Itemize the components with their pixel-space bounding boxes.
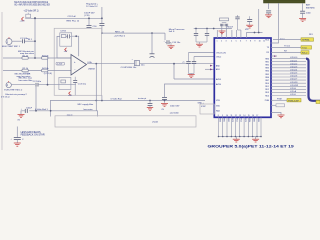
ground (red) C5C6 — [196, 44, 203, 47]
capacitor C16 — [87, 18, 92, 27]
wire +5V feed above IC — [194, 28, 232, 30]
junction mic1 cap — [34, 40, 36, 42]
svg-text:C2 10n: C2 10n — [23, 73, 31, 75]
wire mic2 cap down to 0V rail — [35, 87, 37, 111]
wire antenna down — [268, 3, 270, 9]
svg-text:MCLR: MCLR — [227, 27, 233, 29]
svg-text:868 MHz: 868 MHz — [306, 7, 315, 9]
power flag (red) feedback — [64, 48, 68, 53]
svg-text:12: 12 — [235, 115, 237, 117]
wire input 2 — [3, 70, 71, 72]
wire mic1 out — [12, 40, 22, 42]
capacitor C1 — [22, 39, 24, 43]
svg-text:ELECTRET MIC 1: ELECTRET MIC 1 — [2, 46, 21, 48]
junction feedback node — [75, 35, 77, 37]
svg-text:MIC supply filter: MIC supply filter — [78, 103, 94, 106]
ground (red) under C14 — [168, 46, 175, 49]
svg-text:RB0: RB0 — [265, 58, 269, 60]
svg-text:RD2: RD2 — [265, 89, 269, 91]
wire op-amp output — [87, 63, 135, 65]
svg-text:RD5: RD5 — [252, 119, 254, 123]
svg-text:1.25V: 1.25V — [57, 64, 63, 66]
sheet left border — [1, 12, 3, 150]
svg-text:FEEDBACK ON STAR: FEEDBACK ON STAR — [21, 133, 45, 136]
wire +12V top rail — [31, 17, 102, 19]
small component right — [276, 104, 285, 107]
svg-text:RB6: RB6 — [265, 77, 269, 79]
svg-text:RD6: RD6 — [257, 119, 259, 123]
sheet background — [0, 0, 320, 152]
resistor R3b — [42, 57, 48, 60]
0V rail 1 wire — [29, 111, 97, 117]
svg-text:LCD-K: LCD-K — [290, 94, 297, 96]
capacitor C23 — [247, 16, 252, 25]
junction +5V b — [206, 28, 208, 30]
ground (red) under C23 — [246, 25, 253, 28]
wire mic gnd link — [50, 101, 52, 117]
junction 0V b — [149, 100, 151, 102]
svg-text:LCD-RW: LCD-RW — [290, 85, 298, 87]
svg-text:OSC1/CLKI: OSC1/CLKI — [216, 52, 226, 54]
svg-text:ANT: ANT — [306, 3, 311, 6]
wire to ground A — [235, 137, 237, 140]
wire audio branch vertical — [173, 64, 175, 79]
svg-text:8: 8 — [218, 115, 219, 117]
svg-text:MIC + AMPLIFIER IN GROUNDED (E: MIC + AMPLIFIER IN GROUNDED (EMI) SHIELD… — [14, 3, 50, 7]
wire pin RA2 stub — [205, 68, 214, 70]
svg-text:0 V ref pt: 0 V ref pt — [1, 96, 10, 99]
ground (red) under C22 — [299, 19, 306, 22]
svg-text:low noise filter: low noise filter — [19, 79, 33, 82]
net arrow pin RA1 — [210, 65, 213, 67]
fuse F1 — [25, 13, 30, 18]
capacitor C14 — [164, 40, 172, 44]
svg-text:(1,2,3,4): (1,2,3,4) — [44, 73, 52, 75]
svg-text:TX 0ut: TX 0ut — [284, 45, 290, 48]
svg-text:RD1: RD1 — [265, 86, 269, 88]
svg-text:C19 1uF: C19 1uF — [68, 16, 77, 18]
data bus net lines — [271, 59, 306, 96]
0V long rail — [50, 100, 205, 102]
svg-text:+6V: +6V — [64, 51, 68, 53]
wire pin stub small — [271, 55, 277, 57]
svg-text:13: 13 — [239, 115, 241, 117]
svg-text:AVDD: AVDD — [216, 78, 222, 81]
ground (red) under C18 — [14, 143, 21, 146]
net label yellow edge — [316, 100, 320, 103]
svg-text:RC3: RC3 — [244, 119, 246, 123]
wire drop to C12 — [151, 33, 153, 53]
svg-text:OSC2: OSC2 — [216, 56, 221, 58]
svg-text:LCD-D7: LCD-D7 — [290, 79, 298, 81]
wire reset drop — [258, 9, 260, 33]
svg-text:RB4: RB4 — [265, 71, 269, 73]
junction 0V a — [95, 100, 97, 102]
crystal load caps — [220, 23, 228, 26]
wire mic2 to bias cluster — [38, 84, 76, 86]
capacitor C19 — [99, 7, 104, 33]
svg-text:RC0: RC0 — [265, 39, 269, 41]
wire to IC pin AREF — [165, 84, 215, 97]
wire net label 3 — [271, 51, 301, 53]
electret mic MIC1 — [6, 37, 12, 44]
svg-text:ELECTRET MIC 2: ELECTRET MIC 2 — [4, 90, 23, 92]
wire input 1 — [3, 57, 71, 59]
bus line (thick) — [306, 59, 320, 101]
junction rail2 a — [151, 32, 153, 34]
svg-text:LCD-D1: LCD-D1 — [290, 60, 298, 62]
svg-text:RD0: RD0 — [265, 83, 269, 85]
svg-text:RB7: RB7 — [265, 80, 269, 82]
svg-text:RB3: RB3 — [265, 68, 269, 70]
svg-text:and 100n: and 100n — [170, 112, 180, 114]
wire coupling to IC — [140, 63, 215, 65]
svg-text:5x4 S: 5x4 S — [169, 31, 175, 33]
wire dec gnd stub — [190, 73, 192, 76]
svg-text:RE2: RE2 — [227, 119, 229, 123]
svg-text:0 Volts Rail: 0 Volts Rail — [111, 97, 122, 100]
capacitor C22 — [300, 3, 305, 18]
wire reset feed — [246, 32, 262, 34]
capacitor C11 — [162, 97, 167, 103]
svg-text:LCD-D4: LCD-D4 — [290, 70, 298, 72]
IC left pin names — [216, 52, 226, 112]
svg-text:PGM-ICSP: PGM-ICSP — [288, 100, 299, 102]
wire mic2 out — [11, 84, 35, 86]
svg-text:RE1: RE1 — [223, 119, 225, 123]
svg-text:12 Volts DC: 12 Volts DC — [86, 5, 98, 8]
wire pin stub b — [271, 104, 276, 106]
svg-text:LCD-D3: LCD-D3 — [290, 66, 298, 68]
svg-text:PGM: PGM — [265, 100, 270, 102]
power flag (red) bias — [68, 92, 72, 98]
wire dec top — [189, 52, 215, 54]
shield box bottom — [55, 116, 196, 127]
junction +5V c — [213, 28, 215, 30]
wire C14 to ground — [170, 42, 172, 45]
svg-text:+12 Volts (VR 1): +12 Volts (VR 1) — [24, 9, 39, 12]
capacitor C17 — [148, 101, 153, 108]
svg-text:C14 10u: C14 10u — [172, 42, 181, 44]
crystal X1 — [220, 18, 229, 21]
wire feedback left to inverting input — [57, 36, 71, 58]
wire feedback to output — [72, 36, 79, 56]
wire mic2 bias vertical — [47, 58, 49, 85]
svg-text:RD4: RD4 — [265, 95, 269, 97]
svg-text:LCD-RS: LCD-RS — [290, 82, 298, 84]
wire dec common — [189, 73, 195, 75]
svg-text:RB5: RB5 — [265, 74, 269, 76]
svg-text:1: 1 — [217, 41, 218, 43]
svg-text:C2 100n: C2 100n — [33, 81, 42, 83]
junction audio branch — [173, 63, 175, 65]
capacitor C8 — [192, 57, 196, 74]
wire bias gnd drop — [95, 64, 97, 111]
IC top pin stubs — [217, 24, 246, 38]
svg-text:LCD-D6: LCD-D6 — [290, 76, 298, 78]
svg-text:LM358: LM358 — [88, 68, 95, 70]
svg-text:100n 63V: 100n 63V — [170, 106, 180, 108]
svg-text:14: 14 — [243, 115, 245, 117]
svg-text:10: 10 — [259, 41, 261, 43]
capacitor C5 — [194, 29, 198, 43]
ground (red) under C21 — [265, 15, 272, 18]
capacitor C15 (series) — [21, 107, 33, 114]
bottom common wire — [219, 136, 262, 138]
ground (red) right of IC — [278, 115, 285, 118]
svg-text:AN0: AN0 — [216, 64, 220, 67]
svg-text:5: 5 — [236, 41, 237, 43]
junction +5V a — [195, 28, 197, 30]
svg-text:+12V: +12V — [20, 21, 26, 23]
svg-text:2: 2 — [221, 41, 222, 43]
capacitor C7 — [186, 53, 190, 74]
net arrow pin RA2 — [210, 68, 213, 70]
svg-text:9: 9 — [254, 41, 255, 43]
svg-text:SERIAL: SERIAL — [302, 39, 311, 42]
junction bias top — [47, 57, 49, 59]
op-amp U1A — [71, 55, 87, 76]
capacitor C2 — [36, 83, 38, 87]
IC bottom pin wires — [219, 117, 262, 136]
net arrow stub — [274, 55, 276, 57]
mic bias network box 2 — [59, 77, 71, 89]
svg-text:to star pt: to star pt — [138, 97, 147, 100]
feedback network box 1 — [60, 33, 72, 46]
capacitor C10 coupling — [132, 59, 140, 66]
svg-text:RB2: RB2 — [265, 65, 269, 67]
svg-text:RB1: RB1 — [265, 62, 269, 64]
svg-text:GROUPER 5.0(a)PET 11-12-14 ET: GROUPER 5.0(a)PET 11-12-14 ET 19 — [208, 143, 295, 148]
shield enclosure box (amp) — [54, 28, 101, 95]
data bus net labels — [290, 57, 298, 96]
svg-text:REG Plus 12: REG Plus 12 — [67, 20, 80, 22]
IC pin numbers top row — [217, 41, 266, 43]
power flag +12V (red) — [20, 17, 26, 23]
svg-text:RE0: RE0 — [218, 119, 220, 123]
wire gnd drop C5C6 — [199, 42, 201, 44]
svg-text:RC2: RC2 — [240, 119, 242, 123]
svg-text:LCD-D0: LCD-D0 — [290, 57, 298, 59]
svg-text:ICSP: ICSP — [201, 106, 206, 108]
capacitor C21 (on antenna drop) — [266, 11, 271, 15]
svg-text:4: 4 — [231, 41, 232, 43]
svg-text:LCD-D5: LCD-D5 — [290, 73, 298, 75]
wire to IC pin AN3 — [174, 78, 214, 80]
ground (red) under C17 — [147, 108, 153, 111]
IC bottom pin labels — [218, 119, 258, 123]
svg-text:LCD-A: LCD-A — [290, 90, 297, 93]
small header box J2 — [200, 104, 214, 114]
wire enclosure to 0V — [101, 95, 103, 100]
wire bottom right net — [271, 99, 287, 101]
svg-text:+6V: +6V — [68, 95, 72, 97]
junction top rail / left drop — [34, 17, 36, 19]
junction dots bottom pins — [218, 136, 262, 138]
resistor R5 (bias) — [61, 80, 66, 83]
svg-text:COUPLING 10u: COUPLING 10u — [121, 67, 137, 69]
junction mic2 bias — [47, 84, 49, 86]
svg-text:C3 R4: C3 R4 — [60, 31, 67, 33]
ground (red) bottom B — [252, 139, 259, 142]
IC right pin names — [265, 39, 270, 102]
junction C19 bottom rail — [101, 32, 103, 34]
svg-text:100n: 100n — [306, 12, 312, 14]
svg-text:shield: shield — [152, 122, 158, 124]
IC bottom pin numbers — [218, 115, 258, 117]
svg-text:16: 16 — [252, 115, 254, 117]
ground (red) crystal caps — [219, 31, 226, 34]
junction reset drop — [258, 32, 260, 34]
svg-text:RC0: RC0 — [231, 119, 233, 123]
svg-text:RC1: RC1 — [235, 119, 237, 123]
wire to ground B — [255, 137, 257, 140]
capacitor C18 — [11, 127, 25, 143]
junction rail1 — [35, 110, 37, 112]
svg-text:LCD-D2: LCD-D2 — [290, 63, 298, 65]
capacitor C20 — [235, 15, 241, 30]
svg-text:9: 9 — [222, 115, 223, 117]
resistor R2 — [22, 69, 28, 72]
svg-text:AN1: AN1 — [216, 68, 220, 71]
ground (red) under C11 — [161, 104, 168, 112]
resistor R4b — [42, 69, 48, 72]
svg-text:RX-D: RX-D — [302, 53, 308, 55]
ground (red) dec cluster — [188, 75, 195, 78]
electret mic MIC2 — [6, 81, 11, 88]
resistor R1 — [22, 57, 28, 60]
svg-text:17: 17 — [256, 115, 258, 117]
wire net label 1 — [273, 39, 301, 41]
svg-text:(C19): (C19) — [84, 15, 90, 17]
svg-text:AVSS: AVSS — [216, 83, 222, 86]
IC top-right bracket wire — [271, 3, 279, 43]
svg-text:+12V Rail 2: +12V Rail 2 — [114, 35, 126, 37]
svg-text:3: 3 — [226, 41, 227, 43]
wire net label 2 — [271, 46, 301, 48]
svg-text:RD3: RD3 — [265, 92, 269, 94]
capacitor C6 — [205, 29, 209, 43]
svg-text:15: 15 — [248, 115, 250, 117]
antenna block (green) — [264, 0, 306, 3]
svg-text:C13 10u: C13 10u — [78, 83, 87, 85]
ground (red) under C15 — [18, 115, 25, 122]
svg-text:8: 8 — [250, 41, 251, 43]
junction 0V c — [101, 100, 103, 102]
net label yellow 4 — [287, 99, 301, 103]
capacitor C12 (electrolytic) — [150, 54, 155, 58]
wire C5C6 common — [196, 41, 207, 43]
svg-text:VDD: VDD — [216, 105, 221, 107]
svg-text:LCD-E: LCD-E — [290, 88, 297, 90]
ground (red) bottom A — [233, 139, 240, 142]
net label yellow 3 — [301, 51, 309, 55]
svg-text:GND +: GND + — [198, 103, 205, 105]
net label yellow 1 — [301, 38, 314, 42]
svg-text:7: 7 — [246, 41, 247, 43]
wire to right ground — [271, 113, 281, 115]
capacitor C13 — [73, 77, 77, 96]
svg-text:TX-D: TX-D — [302, 48, 308, 50]
svg-text:PGM: PGM — [277, 99, 282, 101]
svg-text:VPP: VPP — [245, 29, 250, 31]
junction input1/mic1 — [34, 57, 36, 59]
svg-text:11: 11 — [231, 115, 233, 117]
svg-text:Electret mic preamp 2: Electret mic preamp 2 — [6, 93, 28, 96]
net label box 1.25V — [56, 62, 65, 65]
svg-text:RD4: RD4 — [248, 119, 250, 123]
junction 0V d — [164, 100, 166, 102]
net label yellow 2 — [301, 46, 312, 50]
wire +12V rail 2 — [102, 32, 165, 34]
wire C1 to corner — [24, 40, 35, 42]
wire dec 2 — [194, 56, 214, 58]
svg-text:6: 6 — [240, 41, 241, 43]
wire +12 feed vertical — [34, 18, 36, 58]
wire drop to C14 — [164, 33, 166, 40]
svg-text:RA4: RA4 — [216, 109, 220, 112]
IC U2 microcontroller — [214, 38, 271, 117]
junction reset — [254, 32, 256, 34]
svg-text:10: 10 — [226, 115, 228, 117]
junction rail1 b — [50, 110, 52, 112]
junction C16 top — [88, 17, 90, 19]
junction output/feedback — [95, 63, 97, 65]
resistor R3 (feedback) — [61, 35, 66, 38]
capacitor C4 (feedback) — [66, 34, 71, 38]
